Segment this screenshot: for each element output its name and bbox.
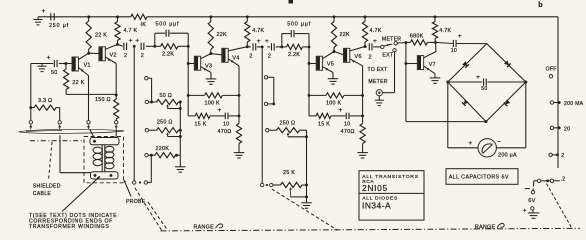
svg-text:15 K: 15 K	[195, 121, 207, 127]
svg-text:METER: METER	[382, 36, 401, 42]
resistor 470 ohm	[218, 116, 242, 153]
capacitor 10uf out	[436, 33, 487, 54]
svg-text:V1: V1	[84, 63, 91, 69]
dashed leader shielded cable	[49, 142, 53, 180]
wire V6 base	[334, 52, 343, 55]
svg-text:−: −	[497, 140, 501, 146]
wire bridge top-right edge	[487, 44, 526, 82]
resistor 4.7K (V6)	[362, 17, 381, 47]
probe body	[19, 129, 125, 133]
svg-text:2.2K: 2.2K	[162, 51, 174, 57]
svg-text:RANGE: RANGE	[194, 225, 215, 231]
wire V3 emitter	[201, 67, 211, 79]
resistor 22K (V3)	[208, 17, 227, 54]
wire input node	[31, 63, 53, 65]
label RANGE left	[194, 224, 223, 231]
svg-text:2.2K: 2.2K	[288, 52, 300, 58]
gang dash-dot line RANGE	[161, 228, 581, 231]
switch contact 200MA	[550, 101, 583, 107]
wire V1 collector	[78, 53, 88, 59]
wire top supply rail	[38, 15, 558, 18]
svg-text:470Ω: 470Ω	[341, 129, 355, 135]
svg-text:+: +	[47, 55, 51, 62]
resistor 220K	[145, 146, 181, 158]
wire bridge bottom-left edge	[448, 82, 486, 122]
svg-text:EXT: EXT	[382, 52, 393, 58]
svg-text:15 K: 15 K	[318, 121, 330, 127]
ground 470 ohm	[234, 153, 245, 158]
svg-text:10: 10	[223, 121, 229, 127]
svg-text:50 Ω: 50 Ω	[160, 93, 173, 99]
capacitor 500uuf	[155, 22, 188, 47]
ground 470 ohm 2	[357, 153, 368, 158]
svg-text:IK: IK	[141, 22, 147, 28]
wire V1 emitter	[78, 68, 88, 121]
jack pair mid	[264, 76, 275, 106]
resistor 4.7K (V4)	[245, 17, 265, 47]
capacitor 50 bridge	[446, 74, 527, 92]
wire bridge bottom-right edge	[486, 82, 526, 122]
potentiometer 250 ohm	[145, 120, 182, 137]
svg-text:V4: V4	[232, 55, 239, 61]
wire long rail from coupling node down	[133, 46, 135, 180]
potentiometer 25K	[261, 170, 308, 198]
svg-text:25 K: 25 K	[283, 170, 295, 176]
svg-text:+: +	[338, 107, 342, 114]
svg-text:b: b	[538, 0, 543, 9]
switch pole meter	[381, 45, 384, 48]
svg-text:+: +	[476, 74, 480, 81]
svg-text:680K: 680K	[410, 34, 424, 40]
switch arm meter	[384, 44, 393, 46]
wire EXT to jack	[383, 52, 395, 93]
crop mark a	[289, 0, 294, 4]
wire V7 base	[406, 63, 417, 65]
svg-text:V5: V5	[327, 62, 334, 68]
svg-text:250 Ω: 250 Ω	[157, 120, 173, 126]
wire V5 base rail	[308, 47, 311, 116]
svg-text:200 MA: 200 MA	[564, 101, 584, 107]
resistor 22K (V1 collector)	[86, 17, 107, 55]
resistor 22K (V5)	[331, 17, 350, 52]
resistor 1K in rail	[131, 14, 147, 28]
wire to coupling caps 2	[247, 46, 251, 48]
wire V2 emitter	[105, 57, 117, 96]
svg-text:CABLE: CABLE	[33, 191, 52, 197]
resistor 150 ohm	[95, 95, 119, 120]
wire long rail to 25K switch	[261, 47, 263, 183]
probe jack 2	[58, 121, 61, 130]
resistor 100K	[188, 93, 239, 107]
svg-text:+: +	[129, 38, 133, 45]
leader PROBE arrow	[124, 180, 131, 197]
probe selector switch	[133, 155, 152, 184]
capacitor 500uuf 2	[282, 22, 311, 47]
svg-text:V7: V7	[429, 62, 436, 68]
range switch arm	[547, 184, 573, 229]
probe jack 1	[29, 121, 32, 130]
gang dashed diagonal probe A	[135, 188, 162, 231]
svg-text:500 μμf: 500 μμf	[287, 22, 311, 28]
ground jack	[375, 96, 384, 106]
potentiometer 250 ohm 2	[266, 120, 308, 185]
svg-text:3.3 Ω: 3.3 Ω	[38, 98, 52, 104]
svg-text:RANGE: RANGE	[475, 224, 496, 230]
svg-text:22 K: 22 K	[72, 80, 84, 86]
label PROBE	[126, 199, 146, 205]
resistor 3.3 ohm	[31, 98, 60, 110]
capacitor 2uf D	[265, 38, 274, 59]
wire V5 base	[310, 63, 316, 65]
wire meter loop left	[448, 82, 478, 148]
svg-text:4.7K: 4.7K	[370, 28, 382, 34]
svg-text:20: 20	[564, 126, 570, 132]
wire caps to RC node	[146, 45, 156, 48]
label OFF	[546, 67, 557, 73]
battery 6V terminals	[523, 181, 539, 219]
svg-text:22 K: 22 K	[95, 33, 107, 39]
transistor V1	[72, 57, 91, 71]
label b	[538, 0, 543, 9]
jack TO EXT METER	[367, 67, 388, 96]
ground V5	[328, 79, 339, 84]
svg-text:2: 2	[268, 54, 271, 60]
svg-text:V6: V6	[354, 54, 361, 60]
shield box dashed	[84, 137, 124, 183]
box all transistors / diodes	[359, 171, 424, 220]
transformer T	[90, 138, 119, 180]
wire V2 collector	[105, 43, 119, 49]
wire V7 net to bridge bottom	[406, 120, 488, 123]
wire pots right rail	[179, 102, 182, 155]
gang dashed diagonal 25K	[272, 189, 338, 230]
wire V2 base	[89, 52, 99, 54]
svg-text:2: 2	[369, 55, 372, 61]
wire V6 collector	[350, 45, 367, 51]
svg-text:2: 2	[124, 53, 127, 59]
transistor V2	[99, 47, 117, 61]
box all capacitors	[446, 169, 518, 185]
wire left rail	[29, 64, 32, 121]
wire V5 collector	[323, 50, 336, 59]
resistor 15K 2	[309, 113, 331, 127]
wire V3 collector	[201, 52, 213, 59]
wire bridge top-left edge	[448, 44, 487, 82]
capacitor 2uf A	[124, 38, 133, 59]
probe jack 4	[115, 121, 118, 130]
label RANGE right	[475, 223, 504, 230]
svg-text:4.7K: 4.7K	[252, 28, 264, 34]
label T see text	[29, 213, 117, 230]
svg-text:SHIELDED: SHIELDED	[33, 184, 61, 190]
wire V7 collector	[424, 42, 436, 57]
svg-text:500 μμf: 500 μμf	[156, 22, 180, 28]
wire V4 base	[211, 54, 222, 55]
capacitor 50 input	[47, 55, 58, 77]
wire V6 emitter	[350, 59, 364, 118]
resistor 470 ohm 2	[341, 116, 366, 153]
svg-text:250 Ω: 250 Ω	[280, 120, 296, 126]
transistor V7	[417, 56, 436, 70]
capacitor 2uf C	[249, 38, 260, 59]
svg-text:.2: .2	[561, 176, 566, 182]
switch contact OFF	[549, 75, 552, 78]
transistor V6	[343, 48, 361, 62]
capacitor 250uf	[42, 8, 69, 29]
svg-text:22K: 22K	[340, 32, 350, 38]
svg-text:+: +	[523, 207, 527, 214]
wire V5 emitter	[323, 67, 333, 79]
capacitor 2uf out	[365, 38, 377, 61]
capacitor 10uf (fb)	[210, 107, 239, 127]
switch contact 20	[550, 126, 570, 132]
svg-text:50: 50	[51, 70, 58, 76]
wire V4 emitter	[228, 59, 240, 118]
resistor 15K	[188, 113, 210, 127]
wire probe return	[60, 135, 91, 172]
svg-text:2NI05: 2NI05	[362, 183, 388, 193]
potentiometer 50 ohm	[145, 93, 182, 109]
capacitor 2uf B	[135, 38, 144, 59]
wire to coupling caps	[118, 44, 123, 46]
jack pair upper	[145, 77, 153, 104]
resistor 2.2K	[155, 44, 190, 58]
svg-text:22K: 22K	[217, 32, 227, 38]
ground V7	[430, 78, 441, 83]
svg-text:TRANSFORMER WINDINGS: TRANSFORMER WINDINGS	[29, 224, 109, 230]
capacitor 10uf (fb2)	[331, 107, 363, 127]
label SHIELDED CABLE	[33, 184, 61, 198]
svg-text:4.7 K: 4.7 K	[124, 28, 138, 34]
svg-text:IN34-A: IN34-A	[362, 200, 391, 210]
svg-text:+: +	[217, 107, 221, 114]
diode D3	[462, 99, 469, 106]
svg-text:V2: V2	[110, 52, 117, 58]
svg-text:2: 2	[249, 54, 252, 60]
svg-text:+: +	[265, 38, 269, 45]
wire V3 base	[188, 63, 194, 65]
svg-text:+: +	[42, 8, 46, 15]
svg-text:2: 2	[561, 153, 564, 159]
gang dashed diagonal probe B	[148, 202, 168, 231]
switch contact 2	[549, 153, 564, 159]
svg-text:+: +	[257, 38, 261, 45]
wire caps to RC node 2	[257, 45, 283, 48]
svg-text:+: +	[458, 33, 462, 40]
ground 25K	[301, 197, 312, 208]
probe jack 3	[87, 121, 90, 130]
wire V3 base rail	[187, 46, 190, 116]
resistor 4.7K (V2 collector)	[115, 17, 138, 45]
diode D2	[504, 60, 511, 67]
ground V3	[206, 79, 217, 84]
ground pots	[175, 155, 186, 172]
meter 200uA	[468, 139, 517, 159]
junction caps 2	[261, 45, 264, 48]
svg-text:10: 10	[451, 48, 457, 54]
transistor V4	[222, 48, 240, 62]
wire transformer top leads	[90, 130, 117, 138]
svg-text:6V: 6V	[528, 198, 535, 204]
leader T text arrow	[62, 176, 100, 211]
svg-text:TO EXT: TO EXT	[367, 67, 388, 73]
resistor 680K	[406, 34, 437, 46]
wire to switch pole	[373, 46, 380, 48]
wire cap to V1 base	[59, 62, 72, 65]
svg-text:220K: 220K	[156, 146, 170, 152]
svg-text:470Ω: 470Ω	[218, 129, 232, 135]
resistor 22K (V1 base)	[64, 64, 117, 95]
wire right edge rail	[557, 17, 559, 168]
switch contact METER	[394, 41, 407, 45]
resistor 4.7K (V7)	[432, 17, 451, 43]
junction between caps	[133, 45, 136, 48]
svg-text:10: 10	[344, 121, 350, 127]
svg-text:+: +	[135, 38, 139, 45]
svg-text:100 K: 100 K	[326, 100, 341, 106]
resistor 2.2K 2	[282, 44, 311, 58]
diode D4	[504, 100, 511, 107]
transistor V5	[316, 56, 334, 70]
svg-text:METER: METER	[368, 79, 387, 85]
svg-text:OFF: OFF	[546, 67, 557, 73]
wire shield dash-dot	[30, 140, 84, 142]
wire meter loop right	[496, 82, 525, 148]
resistor 100K 2	[309, 93, 363, 107]
ground top-left	[34, 17, 43, 25]
svg-text:ALL CAPACITORS 6V: ALL CAPACITORS 6V	[449, 175, 509, 181]
svg-text:200 μA: 200 μA	[498, 153, 517, 159]
ground input	[38, 64, 47, 72]
svg-text:+: +	[373, 38, 377, 45]
svg-text:2: 2	[141, 53, 144, 59]
svg-text:150 Ω: 150 Ω	[95, 97, 111, 103]
transistor V3	[194, 56, 212, 70]
svg-text:50: 50	[481, 86, 487, 92]
wire V4 collector	[228, 45, 249, 51]
diode D1	[462, 61, 469, 68]
svg-text:250 μf: 250 μf	[49, 23, 69, 29]
label METER	[382, 36, 401, 42]
switch contact EXT	[382, 49, 396, 59]
wire V7 base rail	[404, 43, 407, 122]
switch contact .2	[534, 176, 566, 182]
svg-text:4.7K: 4.7K	[439, 28, 451, 34]
svg-text:100 K: 100 K	[205, 100, 220, 106]
wire V7 emitter	[424, 66, 435, 78]
svg-text:+: +	[468, 140, 472, 147]
wire 3.3 ohm to jack	[59, 108, 61, 121]
